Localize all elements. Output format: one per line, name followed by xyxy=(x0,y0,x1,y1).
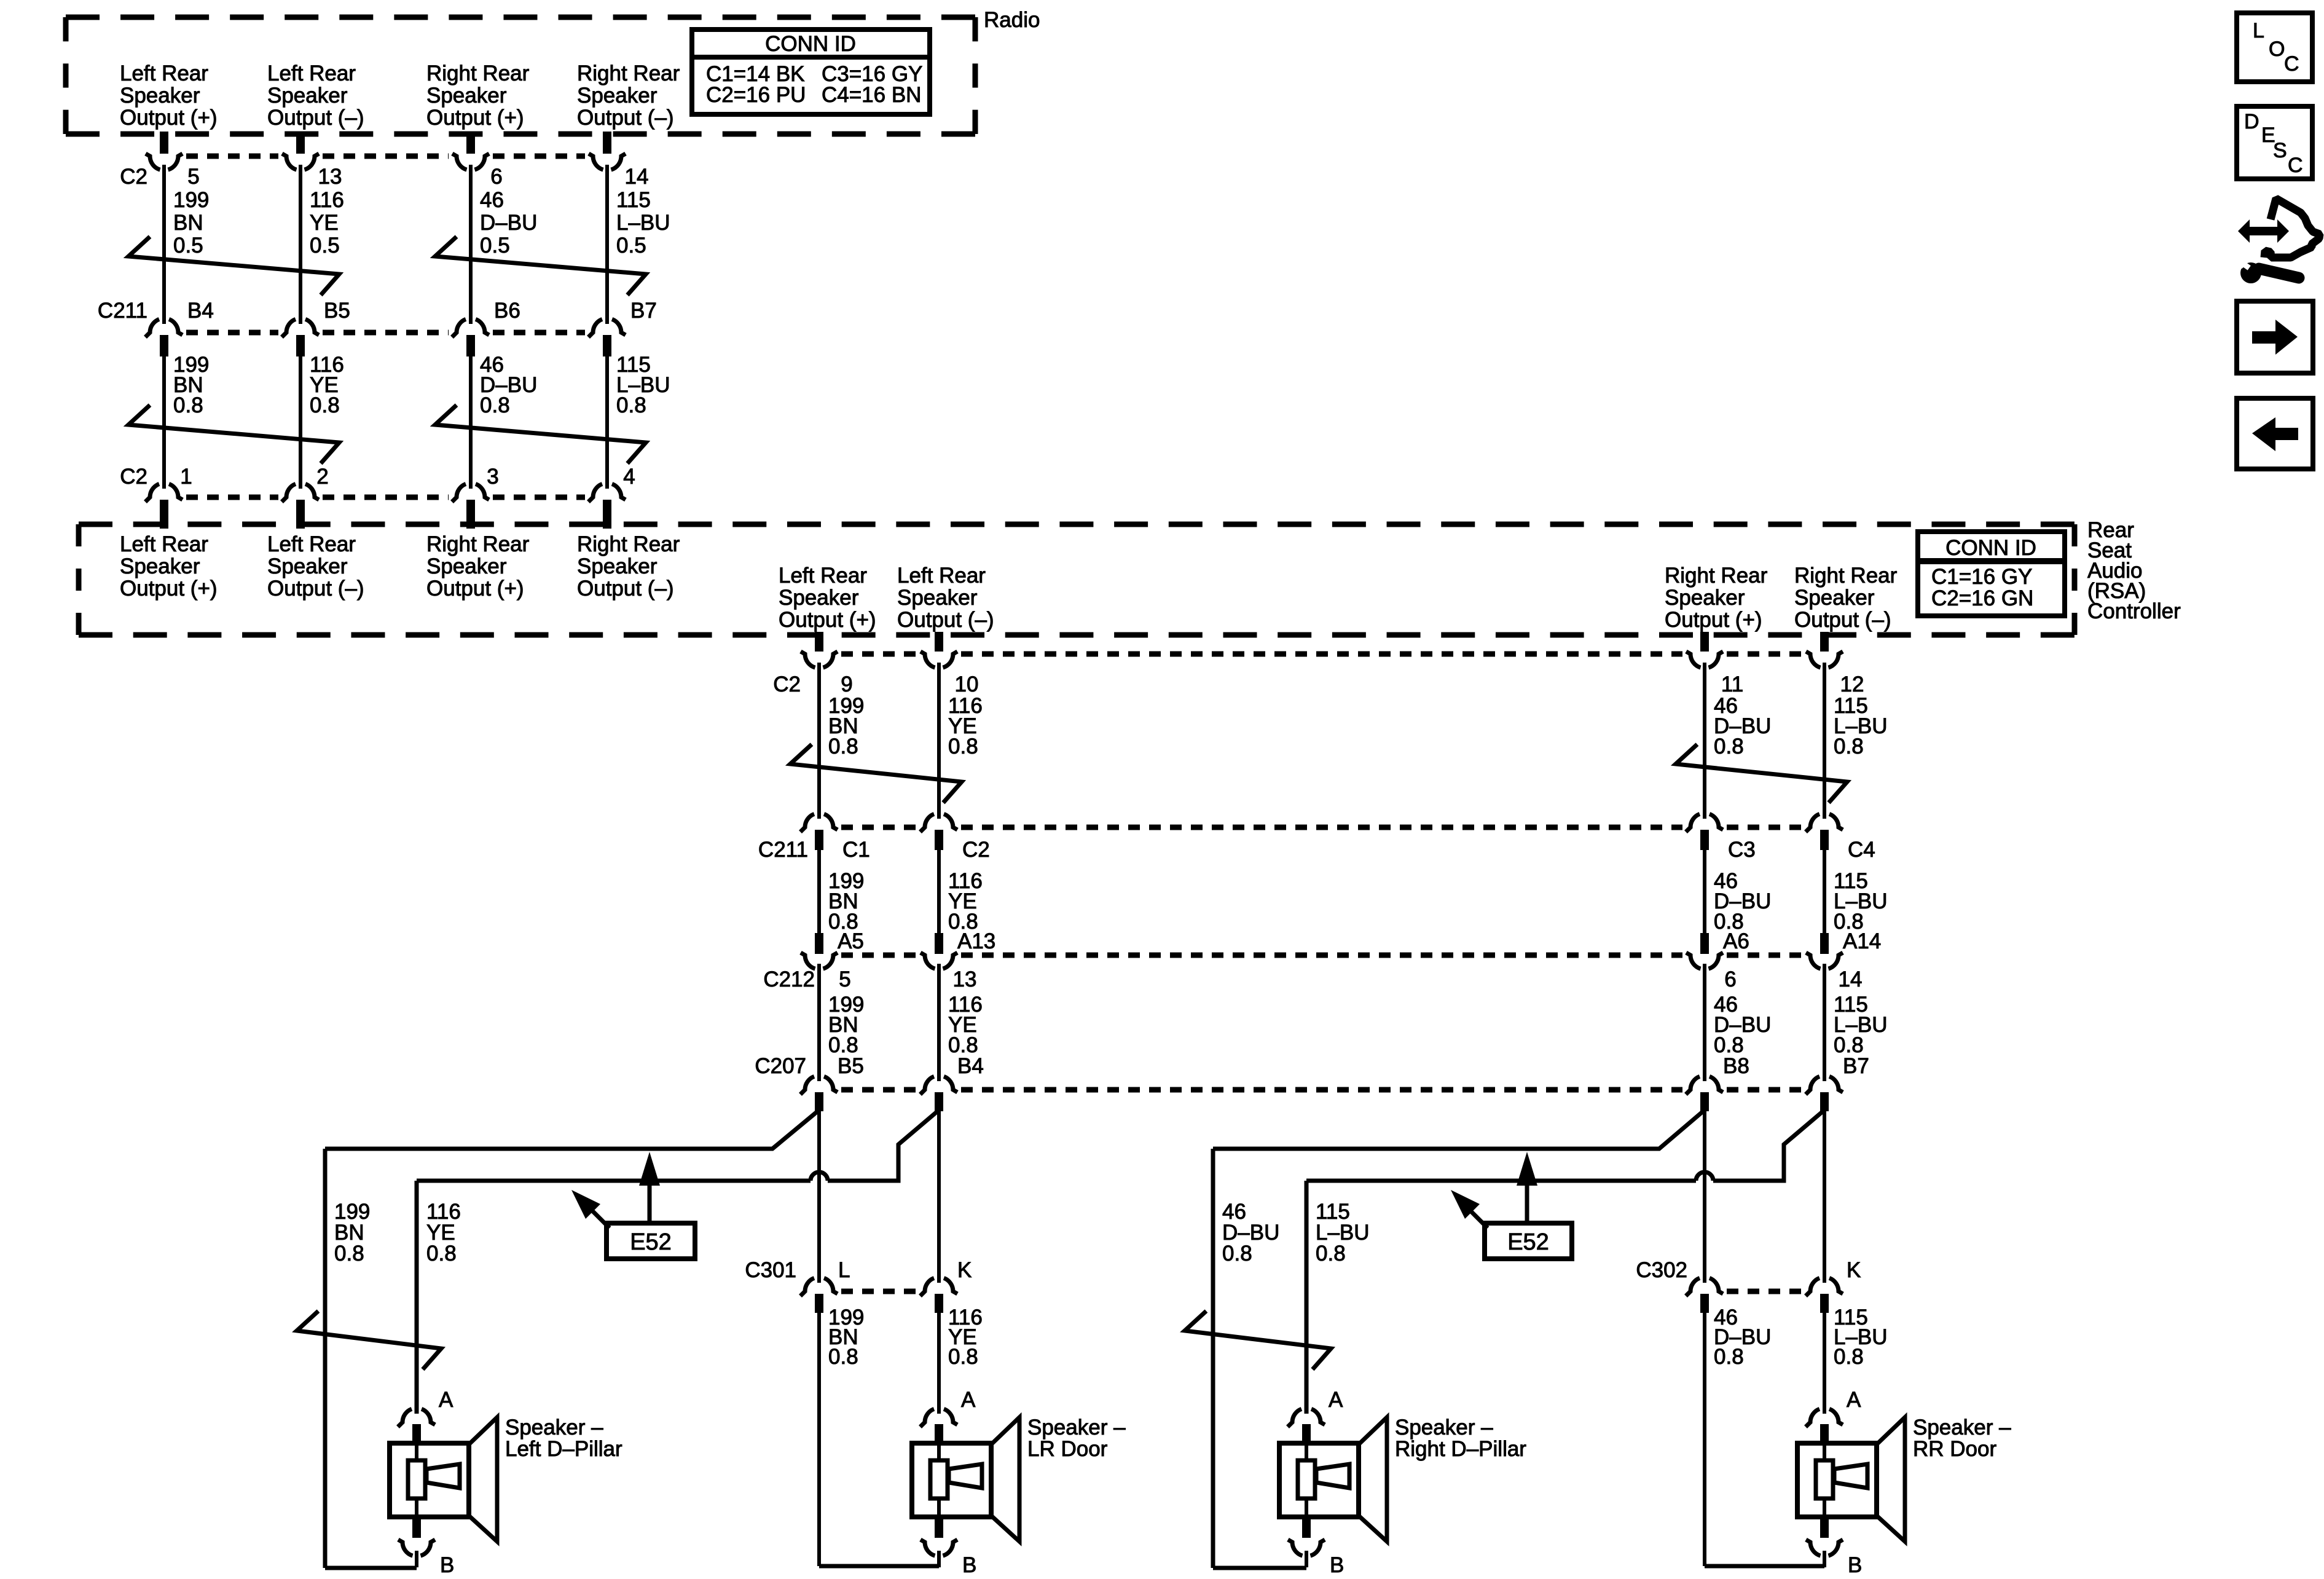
svg-text:B5: B5 xyxy=(838,1054,864,1078)
svg-text:C211: C211 xyxy=(98,299,147,323)
svg-text:C1: C1 xyxy=(842,838,870,862)
svg-text:4: 4 xyxy=(623,465,635,489)
speaker: Right D-Pillar (pins A B) xyxy=(1279,1388,1526,1577)
wire 46 D–BU 0.8 (C211 to C212) xyxy=(1705,850,1771,934)
svg-text:K: K xyxy=(1847,1258,1861,1282)
svg-text:9: 9 xyxy=(841,672,852,696)
component box: Rear Seat Audio (RSA) Controller xyxy=(79,524,2075,635)
svg-text:2: 2 xyxy=(316,465,328,489)
svg-text:B4: B4 xyxy=(957,1054,984,1078)
svg-text:0.5: 0.5 xyxy=(616,234,646,258)
svg-text:C212: C212 xyxy=(763,967,815,991)
ground/splice label E52 (right) with arrows xyxy=(1451,1152,1572,1259)
svg-text:A6: A6 xyxy=(1723,929,1749,953)
svg-text:Speaker: Speaker xyxy=(1794,586,1875,610)
connector C211 (RSA section), pins C1 C2 C3 C4 xyxy=(758,814,1875,862)
svg-text:C301: C301 xyxy=(745,1258,796,1282)
svg-text:6: 6 xyxy=(490,165,502,189)
pin label (RSA output): Right Rear Speaker Output (–) xyxy=(1794,564,1898,632)
svg-text:0.5: 0.5 xyxy=(480,234,510,258)
svg-text:B: B xyxy=(1330,1553,1344,1577)
svg-text:Output (–): Output (–) xyxy=(267,577,364,600)
svg-text:Left Rear: Left Rear xyxy=(267,61,356,85)
svg-text:C2: C2 xyxy=(120,465,147,489)
wire 116 YE 0.8 branch to Left D-Pillar speaker A (via splice, hops wire 199) xyxy=(417,1110,939,1414)
wire 199 BN 0.8 (C207 to C301 pin L) xyxy=(817,1111,821,1283)
svg-text:O: O xyxy=(2269,37,2285,61)
wire break symbol (to Right D-Pillar speaker) xyxy=(1185,1311,1331,1369)
wire 199 BN 0.8 (C211 to C212) xyxy=(819,850,864,934)
wire 115 L–BU 0.8 (RSA C2 to C211) xyxy=(1824,663,1888,819)
wire 116 YE 0.8 (C211 to RSA C2) xyxy=(300,353,344,489)
wire 46 D–BU 0.8 (C211 to RSA C2) xyxy=(471,353,537,489)
svg-text:0.8: 0.8 xyxy=(948,1345,978,1369)
svg-text:C302: C302 xyxy=(1636,1258,1687,1282)
component box: Radio xyxy=(66,17,975,134)
icon button: next arrow xyxy=(2237,301,2313,373)
svg-text:Output (–): Output (–) xyxy=(1794,608,1891,632)
svg-text:0.8: 0.8 xyxy=(828,1345,858,1369)
pin label (RSA input): Right Rear Speaker Output (–) xyxy=(577,532,680,600)
wire 116 YE 0.5 (radio C2 to C211) xyxy=(300,165,344,324)
svg-text:BN: BN xyxy=(173,211,203,235)
svg-text:Speaker –: Speaker – xyxy=(1027,1416,1126,1439)
svg-text:Speaker: Speaker xyxy=(577,554,658,578)
svg-text:A: A xyxy=(439,1388,453,1412)
svg-text:Left Rear: Left Rear xyxy=(120,532,208,556)
svg-text:CONN ID: CONN ID xyxy=(765,32,856,56)
wire break symbol (circuit 46/115, RSA section) xyxy=(1676,744,1847,803)
svg-text:5: 5 xyxy=(839,967,850,991)
svg-text:Right D–Pillar: Right D–Pillar xyxy=(1395,1437,1526,1461)
pin label (RSA input): Left Rear Speaker Output (+) xyxy=(120,532,218,600)
svg-text:0.8: 0.8 xyxy=(1714,734,1744,758)
svg-text:199: 199 xyxy=(173,188,209,212)
wire 46 D–BU 0.8 (C212 to C207) xyxy=(1705,964,1771,1081)
svg-text:C211: C211 xyxy=(758,838,808,862)
svg-text:0.8: 0.8 xyxy=(1834,734,1864,758)
connector C302, pin K xyxy=(1636,1258,1861,1313)
svg-text:CONN ID: CONN ID xyxy=(1945,536,2036,560)
svg-text:A5: A5 xyxy=(838,929,864,953)
svg-text:Speaker: Speaker xyxy=(426,554,507,578)
svg-text:C4: C4 xyxy=(1848,838,1875,862)
wire 116 YE 0.8 (C301 to LR Door speaker A) xyxy=(939,1305,983,1414)
svg-text:C2: C2 xyxy=(962,838,990,862)
wire 46 D-BU 0.8 branch to Right D-Pillar speaker B (via splice) xyxy=(1213,1110,1705,1568)
svg-text:Right Rear: Right Rear xyxy=(426,61,530,85)
svg-text:YE: YE xyxy=(310,211,339,235)
svg-text:0.8: 0.8 xyxy=(1714,1345,1744,1369)
svg-text:Speaker: Speaker xyxy=(577,84,658,108)
svg-text:0.8: 0.8 xyxy=(173,393,203,417)
svg-text:Output (–): Output (–) xyxy=(577,577,674,600)
svg-text:C2: C2 xyxy=(773,672,801,696)
svg-text:B4: B4 xyxy=(187,299,214,323)
svg-text:3: 3 xyxy=(487,465,498,489)
connector C301, pins L K xyxy=(745,1258,972,1313)
svg-text:0.8: 0.8 xyxy=(1834,1345,1864,1369)
pin label (RSA input): Left Rear Speaker Output (–) xyxy=(267,532,364,600)
svg-text:B7: B7 xyxy=(1843,1054,1869,1078)
wire 115 L-BU 0.8 (C302 to RR Door speaker A) xyxy=(1824,1305,1888,1414)
svg-text:Speaker: Speaker xyxy=(897,586,978,610)
svg-text:0.8: 0.8 xyxy=(1316,1242,1346,1266)
icon: interactive pointer with double arrow and wrench xyxy=(2234,199,2320,283)
wire break symbol (circuit 199/116, 0.5 section) xyxy=(128,237,339,295)
wire 199 BN 0.8 (C212 to C207) xyxy=(819,964,864,1081)
svg-text:Speaker: Speaker xyxy=(779,586,859,610)
wire 199 BN 0.8 (RSA C2 to C211) xyxy=(819,663,864,819)
svg-text:0.8: 0.8 xyxy=(310,393,340,417)
wire break symbol (circuit 199/116, 0.8 section) xyxy=(128,405,339,463)
wire 116 YE 0.8 (C212 to C207) xyxy=(939,964,983,1081)
svg-text:Output (–): Output (–) xyxy=(577,106,674,130)
wire 199 BN 0.8 (C301 to LR Door speaker B) xyxy=(819,1305,939,1566)
pin label (Radio): Right Rear Speaker Output (+) xyxy=(426,61,530,130)
speaker: LR Door (pins A B) xyxy=(912,1388,1126,1577)
wire 115 L–BU 0.8 (C211 to C212) xyxy=(1824,850,1888,934)
svg-text:LR Door: LR Door xyxy=(1027,1437,1108,1461)
svg-text:Left Rear: Left Rear xyxy=(120,61,208,85)
svg-text:Speaker –: Speaker – xyxy=(1395,1416,1493,1439)
svg-text:E52: E52 xyxy=(1507,1229,1549,1255)
svg-text:C2: C2 xyxy=(120,165,147,189)
wire 199 BN 0.5 (radio C2 to C211) xyxy=(164,165,209,324)
svg-text:Speaker: Speaker xyxy=(267,84,348,108)
svg-text:Output (+): Output (+) xyxy=(779,608,876,632)
wire 115 L-BU 0.8 branch to Right D-Pillar speaker A (via splice, hops wire 46) xyxy=(1306,1110,1824,1414)
svg-text:A13: A13 xyxy=(957,929,995,953)
svg-text:Left Rear: Left Rear xyxy=(897,564,986,588)
svg-text:13: 13 xyxy=(318,165,342,189)
wire 115 L–BU 0.8 (C211 to RSA C2) xyxy=(607,353,670,489)
wire 116 YE 0.8 (RSA C2 to C211) xyxy=(939,663,983,819)
svg-text:RR Door: RR Door xyxy=(1913,1437,1996,1461)
svg-text:Controller: Controller xyxy=(2087,599,2181,623)
svg-text:B8: B8 xyxy=(1723,1054,1749,1078)
svg-text:116: 116 xyxy=(310,188,344,212)
speaker: RR Door (pins A B) xyxy=(1797,1388,2011,1577)
svg-text:Output (+): Output (+) xyxy=(1665,608,1762,632)
svg-text:1: 1 xyxy=(180,465,192,489)
svg-text:Output (+): Output (+) xyxy=(426,577,524,600)
wire 46 D-BU 0.8 (C302 to RR Door speaker B) xyxy=(1705,1305,1824,1566)
svg-text:Speaker: Speaker xyxy=(120,84,200,108)
wire 115 L-BU 0.8 (C207 to C302 pin K) xyxy=(1823,1111,1826,1283)
svg-text:Output (–): Output (–) xyxy=(267,106,364,130)
svg-text:12: 12 xyxy=(1840,672,1864,696)
svg-text:C2=16 GN: C2=16 GN xyxy=(1931,586,2033,610)
svg-text:Left Rear: Left Rear xyxy=(779,564,867,588)
wire 115 L–BU 0.5 (radio C2 to C211) xyxy=(607,165,670,324)
svg-text:A14: A14 xyxy=(1843,929,1881,953)
svg-text:Speaker –: Speaker – xyxy=(505,1416,603,1439)
svg-text:B7: B7 xyxy=(630,299,657,323)
svg-text:0.8: 0.8 xyxy=(828,734,858,758)
svg-text:0.8: 0.8 xyxy=(616,393,646,417)
svg-text:C: C xyxy=(2284,52,2299,76)
connector C2 (RSA side), pins 1 2 3 4 xyxy=(120,465,635,529)
svg-text:C4=16 BN: C4=16 BN xyxy=(822,83,921,107)
svg-text:L: L xyxy=(2253,19,2264,42)
wire break symbol (circuit 46/115, 0.8 section) xyxy=(435,405,646,463)
svg-text:B: B xyxy=(1848,1553,1862,1577)
wire break symbol (to Left D-Pillar speaker) xyxy=(297,1311,441,1369)
connector C211, pins B4 B5 B6 B7 xyxy=(98,299,657,356)
svg-text:C1=16 GY: C1=16 GY xyxy=(1931,565,2032,589)
svg-text:C3: C3 xyxy=(1728,838,1756,862)
wire 116 YE 0.8 (C211 to C212) xyxy=(939,850,983,934)
svg-text:0.8: 0.8 xyxy=(1222,1242,1252,1266)
label: Radio xyxy=(984,8,1040,32)
connector C207, pins B5 B4 B8 B7 xyxy=(755,1054,1869,1111)
svg-text:B5: B5 xyxy=(324,299,350,323)
ground/splice label E52 (left) with arrows xyxy=(571,1152,695,1259)
svg-text:A: A xyxy=(1847,1388,1861,1412)
svg-text:14: 14 xyxy=(1839,967,1863,991)
connector ID table (Radio): CONN ID C1=14 BK C2=16 PU C3=16 GY C4=16 BN xyxy=(692,30,930,114)
speaker: Left D-Pillar (pins A B) xyxy=(390,1388,622,1577)
wire 116 YE 0.8 (C207 to C301 pin K) xyxy=(937,1111,941,1283)
svg-text:Output (–): Output (–) xyxy=(897,608,994,632)
svg-text:11: 11 xyxy=(1721,672,1743,696)
wire 199 BN 0.8 (C211 to RSA C2) xyxy=(164,353,209,489)
pin label (Radio): Left Rear Speaker Output (–) xyxy=(267,61,364,130)
svg-text:C2=16 PU: C2=16 PU xyxy=(706,83,806,107)
wire break symbol (circuit 46/115, 0.5 section) xyxy=(435,237,646,295)
wire 46 D-BU 0.8 (C207 to C302) xyxy=(1703,1111,1706,1283)
svg-text:Speaker: Speaker xyxy=(120,554,200,578)
svg-text:D–BU: D–BU xyxy=(480,211,537,235)
svg-text:0.8: 0.8 xyxy=(334,1242,364,1266)
svg-text:Output (+): Output (+) xyxy=(120,106,218,130)
svg-text:A: A xyxy=(1329,1388,1343,1412)
wire 46 D–BU 0.5 (radio C2 to C211) xyxy=(471,165,537,324)
pin label (RSA output): Right Rear Speaker Output (+) xyxy=(1665,564,1768,632)
wire 46 D–BU 0.8 (RSA C2 to C211) xyxy=(1705,663,1771,819)
wire 115 L–BU 0.8 (C212 to C207) xyxy=(1824,964,1888,1081)
svg-text:Output (+): Output (+) xyxy=(426,106,524,130)
svg-text:D: D xyxy=(2244,110,2259,133)
svg-text:46: 46 xyxy=(480,188,504,212)
svg-text:A: A xyxy=(961,1388,976,1412)
pin label (Radio): Left Rear Speaker Output (+) xyxy=(120,61,218,130)
svg-text:13: 13 xyxy=(953,967,977,991)
connector C212, pins A5 A13 A6 A14 / 5 13 6 14 xyxy=(763,929,1881,991)
svg-text:Right Rear: Right Rear xyxy=(426,532,530,556)
svg-text:Right Rear: Right Rear xyxy=(1794,564,1898,588)
label: Rear Seat Audio (RSA) Controller xyxy=(2087,518,2181,623)
icon button: back arrow xyxy=(2237,398,2313,469)
svg-text:0.8: 0.8 xyxy=(426,1242,457,1266)
svg-text:5: 5 xyxy=(187,165,199,189)
svg-text:0.5: 0.5 xyxy=(310,234,340,258)
svg-text:S: S xyxy=(2273,139,2287,162)
svg-text:0.5: 0.5 xyxy=(173,234,203,258)
svg-text:Right Rear: Right Rear xyxy=(1665,564,1768,588)
svg-text:Speaker –: Speaker – xyxy=(1913,1416,2011,1439)
connector C2 (Radio side), pins 5 13 6 14 xyxy=(120,132,648,189)
svg-text:10: 10 xyxy=(955,672,979,696)
svg-text:6: 6 xyxy=(1724,967,1736,991)
svg-text:B6: B6 xyxy=(494,299,520,323)
connector ID table (RSA): CONN ID C1=16 GY C2=16 GN xyxy=(1918,532,2065,616)
svg-text:0.8: 0.8 xyxy=(948,734,978,758)
svg-text:B: B xyxy=(440,1553,454,1577)
wire break symbol (circuit 199/116, RSA section) xyxy=(790,744,962,803)
svg-text:0.8: 0.8 xyxy=(480,393,510,417)
pin label (RSA input): Right Rear Speaker Output (+) xyxy=(426,532,530,600)
icon button: LOC xyxy=(2237,13,2312,82)
svg-text:Right Rear: Right Rear xyxy=(577,532,680,556)
svg-text:Speaker: Speaker xyxy=(1665,586,1745,610)
svg-text:14: 14 xyxy=(625,165,649,189)
svg-text:C: C xyxy=(2288,154,2303,177)
pin label (Radio): Right Rear Speaker Output (–) xyxy=(577,61,680,130)
svg-text:L–BU: L–BU xyxy=(616,211,670,235)
pin label (RSA output): Left Rear Speaker Output (+) xyxy=(779,564,876,632)
svg-text:Left Rear: Left Rear xyxy=(267,532,356,556)
svg-text:Output (+): Output (+) xyxy=(120,577,218,600)
svg-text:K: K xyxy=(957,1258,972,1282)
svg-text:E52: E52 xyxy=(630,1229,672,1255)
pin label (RSA output): Left Rear Speaker Output (–) xyxy=(897,564,994,632)
svg-text:Left D–Pillar: Left D–Pillar xyxy=(505,1437,622,1461)
wire 199 BN 0.8 branch to Left D-Pillar speaker B (via splice) xyxy=(325,1110,819,1568)
svg-text:Radio: Radio xyxy=(984,8,1040,32)
svg-text:B: B xyxy=(962,1553,976,1577)
svg-text:Speaker: Speaker xyxy=(426,84,507,108)
svg-text:Right Rear: Right Rear xyxy=(577,61,680,85)
connector C2 (RSA output side), pins 9 10 11 12 xyxy=(773,632,1864,696)
svg-text:115: 115 xyxy=(616,188,651,212)
svg-text:C207: C207 xyxy=(755,1054,806,1078)
svg-text:Speaker: Speaker xyxy=(267,554,348,578)
svg-text:L: L xyxy=(838,1258,850,1282)
icon button: DESC xyxy=(2237,106,2312,179)
